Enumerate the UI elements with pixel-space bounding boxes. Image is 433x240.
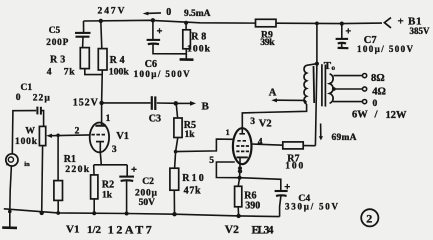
svg-text:in: in (24, 161, 30, 168)
svg-text:6W: 6W (352, 109, 368, 120)
svg-text:22µ: 22µ (33, 94, 51, 104)
svg-text:100k: 100k (15, 137, 38, 147)
svg-text:V2: V2 (225, 224, 239, 236)
svg-text:100µ/ 500V: 100µ/ 500V (357, 44, 414, 54)
svg-text:2: 2 (366, 211, 372, 225)
svg-text:100: 100 (285, 161, 303, 171)
svg-text:69mA: 69mA (332, 133, 357, 143)
svg-text:200P: 200P (46, 38, 68, 48)
svg-text:0: 0 (166, 7, 171, 18)
svg-text:V1: V1 (66, 224, 79, 236)
svg-text:1: 1 (226, 127, 230, 137)
svg-text:4Ω: 4Ω (372, 87, 386, 98)
svg-text:3: 3 (112, 145, 117, 155)
svg-text:4: 4 (258, 137, 263, 147)
svg-text:100k: 100k (109, 67, 130, 78)
svg-text:1k: 1k (102, 190, 113, 200)
svg-text:B: B (202, 100, 210, 112)
svg-text:W: W (25, 126, 35, 137)
svg-text:0: 0 (373, 99, 378, 109)
svg-text:C3: C3 (149, 114, 161, 125)
svg-text:1k: 1k (185, 130, 196, 140)
svg-text:39k: 39k (260, 37, 275, 48)
svg-text:9.5mA: 9.5mA (184, 9, 211, 19)
svg-text:1: 1 (106, 114, 111, 124)
svg-text:V2: V2 (259, 119, 272, 130)
svg-text:247V: 247V (98, 6, 125, 16)
svg-text:C1: C1 (21, 83, 33, 93)
svg-text:12W: 12W (386, 110, 408, 121)
svg-text:C2: C2 (142, 176, 154, 187)
svg-text:1/2: 1/2 (87, 224, 102, 236)
svg-text:4: 4 (47, 66, 52, 77)
svg-text:8Ω: 8Ω (371, 73, 385, 84)
svg-text:V1: V1 (116, 131, 129, 142)
svg-text:100k: 100k (187, 44, 211, 55)
svg-text:3: 3 (250, 117, 255, 127)
svg-text:390: 390 (245, 201, 260, 212)
svg-text:0: 0 (16, 93, 21, 103)
svg-text:R2: R2 (102, 180, 114, 191)
svg-text:152V: 152V (73, 98, 99, 109)
svg-text:EL34: EL34 (252, 224, 274, 236)
svg-text:A: A (269, 88, 277, 99)
svg-text:R10: R10 (182, 173, 204, 184)
svg-text:7k: 7k (64, 66, 76, 77)
svg-text:o: o (332, 64, 336, 72)
svg-text:8: 8 (238, 166, 243, 176)
svg-text:C5: C5 (49, 26, 61, 36)
svg-text:47k: 47k (184, 186, 201, 197)
svg-text:100µ/ 500V: 100µ/ 500V (134, 69, 191, 79)
svg-text:5: 5 (209, 156, 214, 166)
svg-text:385V: 385V (410, 26, 431, 36)
svg-text:50V: 50V (139, 198, 156, 208)
svg-text:220k: 220k (65, 164, 90, 175)
svg-text:2: 2 (75, 126, 80, 136)
